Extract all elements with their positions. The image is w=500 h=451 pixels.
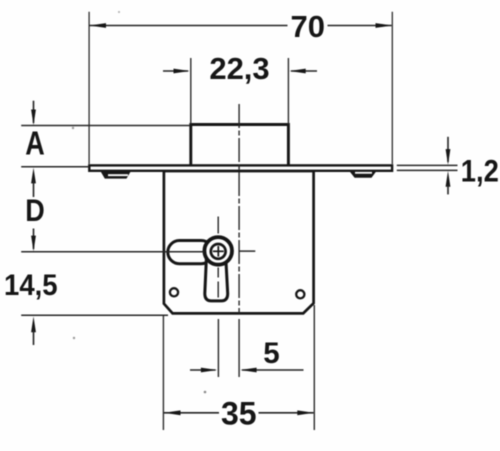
mounting plate 70 wide bbox=[89, 165, 392, 170]
A top boundary line bbox=[21, 125, 190, 127]
svg-text:70: 70 bbox=[291, 9, 325, 44]
dim 35 extension lines bbox=[162, 316, 164, 430]
left countersink notch under plate bbox=[101, 171, 131, 178]
key boss outer circle bbox=[204, 237, 232, 265]
dim 22,3 extension lines bbox=[190, 58, 192, 124]
svg-text:22,3: 22,3 bbox=[209, 51, 269, 86]
14,5 bottom boundary line bbox=[21, 314, 168, 316]
key leg bbox=[205, 260, 228, 301]
svg-text:A: A bbox=[25, 125, 45, 162]
key centerline vertical dashes bbox=[217, 217, 219, 234]
scan specks bbox=[72, 127, 74, 129]
cylinder block on top of plate bbox=[191, 125, 289, 167]
svg-text:1,2: 1,2 bbox=[461, 152, 499, 188]
right countersink notch under plate bbox=[350, 171, 377, 177]
screw hole left bbox=[170, 288, 178, 296]
dim 1,2 arrows bbox=[447, 137, 449, 162]
dim 1,2 extension lines bbox=[397, 164, 458, 166]
arrow chain A/D/14,5 bbox=[33, 101, 35, 123]
dim 35 line bbox=[164, 412, 219, 414]
svg-text:14,5: 14,5 bbox=[4, 269, 58, 302]
dim 22,3 arrows bbox=[163, 70, 188, 72]
key inner circle bbox=[211, 244, 226, 259]
key cross bbox=[213, 250, 224, 252]
A bottom boundary line (plate top extended) bbox=[21, 166, 89, 168]
svg-text:D: D bbox=[25, 192, 45, 228]
dim 70 line bbox=[90, 25, 288, 27]
key wing arm bbox=[168, 241, 213, 264]
svg-text:35: 35 bbox=[221, 395, 257, 431]
dim 70 extension lines bbox=[88, 12, 90, 164]
vertical centerline of body bbox=[238, 104, 240, 313]
dim 5 arrows bbox=[190, 369, 216, 371]
svg-text:5: 5 bbox=[263, 337, 279, 370]
lock body bbox=[164, 171, 314, 313]
screw hole right bbox=[296, 290, 304, 298]
key leg centerline dashes bbox=[217, 268, 219, 278]
horizontal centerline through key bbox=[21, 251, 204, 253]
